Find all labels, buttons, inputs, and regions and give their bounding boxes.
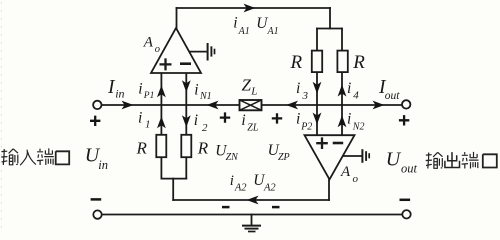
ground at op-amp U1: [189, 43, 215, 61]
svg-text:R: R: [352, 52, 365, 73]
minus at output bottom: [400, 199, 411, 202]
op-amp U2: [305, 135, 355, 179]
label Uout: [386, 149, 418, 176]
svg-text:i: i: [138, 109, 142, 126]
label i3: [296, 80, 309, 102]
wire from left resistor pair down: [172, 179, 174, 200]
label i4: [347, 80, 359, 102]
svg-text:A2: A2: [234, 183, 247, 194]
op-amp U1: [151, 28, 201, 73]
terminal input top: [93, 101, 101, 109]
label iA2: [230, 173, 248, 194]
terminal output top: [402, 100, 410, 108]
ground bottom center: [242, 226, 261, 232]
char 端: [462, 152, 468, 168]
arrow i4 up: [338, 85, 347, 97]
char 输: [1, 149, 7, 165]
arrow i1 up: [157, 116, 166, 128]
label UA1: [256, 15, 278, 37]
arrows: [122, 4, 385, 205]
svg-text:i: i: [347, 80, 351, 97]
label Iout: [378, 77, 400, 102]
plus at output top: [399, 115, 409, 125]
char 端: [37, 149, 43, 165]
label Iin: [107, 77, 125, 101]
char 口: [483, 154, 497, 167]
arrow left toward ZL right side: [286, 101, 298, 110]
wire bottom rail: [102, 214, 403, 216]
terminal output bottom: [402, 210, 410, 218]
svg-text:o: o: [353, 173, 359, 185]
label iP1: [138, 81, 154, 102]
minus UZP bottom: [272, 206, 280, 209]
label iN2: [347, 111, 364, 133]
arrow iP1 up: [157, 85, 166, 97]
svg-text:2: 2: [202, 122, 208, 134]
label UZP: [268, 142, 290, 163]
wire horizontal bar over right resistor pair: [317, 28, 342, 30]
svg-text:i: i: [233, 14, 237, 31]
polarity marks: [90, 112, 410, 207]
svg-text:A1: A1: [238, 26, 250, 37]
char 出: [445, 152, 460, 167]
label Uin: [85, 145, 108, 172]
arrow iN2 up: [338, 115, 347, 127]
svg-text:U: U: [386, 149, 402, 171]
svg-text:i: i: [194, 112, 198, 129]
svg-text:i: i: [296, 111, 300, 128]
svg-text:P2: P2: [300, 122, 312, 133]
label Ao of op-amp U2: [340, 164, 359, 185]
svg-text:L: L: [250, 86, 257, 98]
svg-text:i: i: [230, 173, 234, 189]
wire middle horizontal right of ZL: [262, 104, 403, 106]
arrow Iin right: [122, 101, 134, 110]
faint left dotted edge: [1, 2, 3, 233]
svg-text:out: out: [385, 90, 401, 102]
svg-text:A: A: [143, 34, 154, 50]
terminal input bottom: [93, 210, 101, 218]
label iP2: [296, 111, 312, 133]
svg-text:i: i: [347, 111, 351, 128]
arrow iP2 down: [313, 113, 322, 125]
svg-text:A2: A2: [263, 183, 276, 194]
minus UZN bottom: [222, 206, 230, 209]
svg-text:in: in: [115, 87, 124, 101]
svg-text:i: i: [138, 81, 142, 98]
wire middle horizontal left of ZL: [102, 104, 240, 106]
ground at op-amp U2: [343, 149, 369, 163]
resistor R top-left of right pair: [312, 51, 322, 73]
svg-text:in: in: [98, 158, 108, 172]
wire bar under left resistor pair: [161, 178, 186, 180]
label UZN: [215, 142, 239, 163]
wire op-amp U1 output vertical: [176, 8, 178, 28]
resistor R top-right of right pair: [337, 51, 347, 73]
arrow iA1 right on top wire: [244, 4, 256, 13]
svg-text:ZN: ZN: [226, 152, 240, 163]
wire right branch of right resistor pair: [341, 29, 343, 106]
resistor R left pair, right: [181, 135, 191, 157]
plus left of ZL: [220, 112, 230, 122]
wire top horizontal from op-amp U1 output: [177, 7, 331, 9]
wire op-amp U2 inverting input: [341, 105, 343, 135]
svg-text:4: 4: [353, 90, 359, 102]
label iZL: [241, 112, 258, 133]
svg-text:ZP: ZP: [278, 152, 290, 163]
svg-text:3: 3: [302, 90, 309, 102]
arrow i2 down: [182, 115, 191, 127]
svg-text:i: i: [296, 80, 300, 97]
wire op-amp U2 non-inverting input: [316, 105, 318, 135]
arrow iZL left toward node N1: [207, 101, 219, 110]
wire top right vertical down to resistor pair: [329, 8, 331, 29]
minus at input bottom: [91, 198, 102, 201]
label i2: [194, 112, 208, 134]
wire left branch of right resistor pair: [316, 29, 318, 106]
text 输出端口 (output port): [426, 152, 497, 169]
text 输入端口 (input port): [1, 148, 69, 165]
svg-text:A1: A1: [267, 26, 279, 37]
label i1: [138, 109, 151, 130]
label Ao of op-amp U1: [143, 34, 160, 55]
char 口: [56, 151, 69, 164]
wire op-amp U1 inverting input branch: [185, 73, 187, 179]
label ZL: [242, 76, 258, 98]
svg-text:i: i: [241, 112, 245, 129]
label UA2: [253, 172, 276, 194]
svg-text:R: R: [136, 138, 148, 157]
plus at input top: [90, 116, 100, 126]
label iA1: [233, 14, 249, 36]
arrow i3 down: [313, 82, 322, 94]
svg-text:A: A: [340, 164, 351, 180]
arrow iN1 down: [182, 80, 191, 92]
svg-text:N1: N1: [199, 91, 212, 102]
wire op-amp U2 output vertical: [328, 179, 330, 200]
svg-text:ZL: ZL: [247, 122, 259, 133]
char 入: [20, 150, 36, 166]
resistor R left pair, left: [156, 135, 166, 157]
wire op-amp U1 non-inverting input branch: [160, 73, 162, 179]
arrow iA2 left on bottom horizontal: [247, 196, 259, 205]
plus right of ZL: [272, 113, 282, 123]
svg-text:R: R: [197, 138, 209, 157]
arrow Iout right: [373, 101, 385, 110]
wire ground stub bottom: [251, 215, 253, 225]
svg-text:N2: N2: [352, 122, 365, 133]
svg-text:i: i: [194, 82, 198, 99]
load ZL box: [240, 100, 262, 110]
svg-text:o: o: [155, 44, 160, 55]
svg-text:out: out: [401, 161, 418, 175]
svg-text:P1: P1: [143, 91, 155, 101]
svg-text:Z: Z: [242, 76, 252, 95]
label iN1: [194, 82, 211, 103]
wire iA2 horizontal: [173, 199, 329, 201]
char 输: [426, 153, 432, 169]
svg-text:1: 1: [145, 118, 151, 130]
svg-text:R: R: [290, 52, 303, 73]
